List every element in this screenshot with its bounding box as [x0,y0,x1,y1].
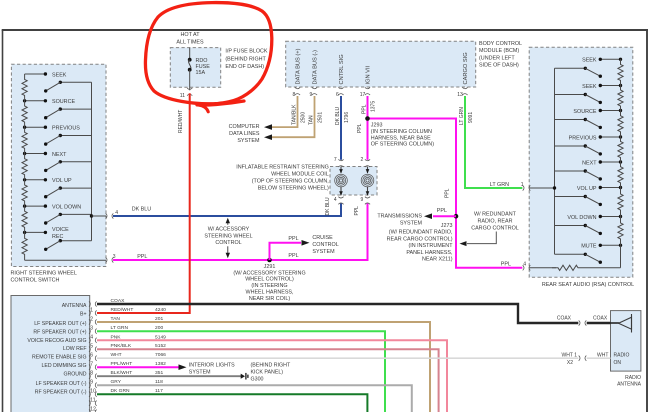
svg-text:CARGO SIG: CARGO SIG [463,52,469,84]
svg-text:STEERING WHEEL: STEERING WHEEL [204,233,252,239]
svg-text:WHT: WHT [597,352,608,358]
svg-text:4: 4 [90,335,93,341]
svg-text:NEAR SIR COIL): NEAR SIR COIL) [249,296,291,302]
svg-text:17: 17 [360,92,366,98]
svg-text:PPL: PPL [354,206,360,216]
svg-text:(IN INSTRUMENT: (IN INSTRUMENT [408,243,453,249]
svg-text:RADIO: RADIO [614,352,630,358]
svg-text:W/ REDUNDANT: W/ REDUNDANT [474,212,517,218]
svg-text:PPL: PPL [361,104,367,114]
svg-text:PPL: PPL [288,236,298,242]
svg-text:4240: 4240 [155,307,166,313]
svg-text:REC: REC [52,234,63,240]
svg-text:RF SPEAKER OUT (-): RF SPEAKER OUT (-) [35,390,87,396]
svg-text:HARNESS, NEAR BASE: HARNESS, NEAR BASE [371,135,431,141]
svg-text:SYSTEM: SYSTEM [400,221,423,227]
svg-text:NEXT: NEXT [52,152,67,158]
svg-text:3: 3 [90,326,93,332]
svg-text:PANEL HARNESS,: PANEL HARNESS, [406,250,453,256]
svg-text:BELOW STEERING WHEEL): BELOW STEERING WHEEL) [258,186,329,192]
svg-text:ALL TIMES: ALL TIMES [176,39,204,45]
svg-text:2501: 2501 [318,112,324,123]
svg-text:LT GRN: LT GRN [459,107,465,125]
svg-text:(TOP OF STEERING COLUMN,: (TOP OF STEERING COLUMN, [252,179,330,185]
svg-text:VOL UP: VOL UP [577,186,597,192]
svg-text:(W/ ACCESSORY STEERING: (W/ ACCESSORY STEERING [233,270,305,276]
svg-text:END OF DASH): END OF DASH) [225,64,264,70]
svg-text:SEEK: SEEK [582,84,597,90]
svg-text:9: 9 [90,380,93,386]
svg-text:PPL: PPL [437,208,447,214]
svg-text:CRUISE: CRUISE [312,235,333,241]
svg-text:ANTENNA: ANTENNA [617,382,642,388]
svg-text:9: 9 [361,197,364,203]
svg-text:COAX: COAX [557,316,572,322]
svg-text:RADIO, REAR: RADIO, REAR [477,219,512,225]
svg-text:11: 11 [180,93,185,99]
svg-text:(UNDER LEFT: (UNDER LEFT [479,55,515,61]
svg-text:LF SPEAKER OUT (-): LF SPEAKER OUT (-) [36,381,87,387]
svg-text:RIGHT STEERING WHEEL: RIGHT STEERING WHEEL [11,270,77,276]
svg-text:I/P FUSE BLOCK: I/P FUSE BLOCK [225,49,268,55]
svg-text:NEAR X211): NEAR X211) [422,257,453,263]
svg-text:CONTROL SWITCH: CONTROL SWITCH [11,277,60,283]
svg-text:MUTE: MUTE [581,244,597,250]
svg-text:SYSTEM: SYSTEM [312,249,335,255]
svg-text:PPL: PPL [501,261,511,267]
svg-text:2: 2 [90,316,93,322]
svg-text:TRANSMISSIONS: TRANSMISSIONS [377,214,422,220]
svg-text:1: 1 [521,182,524,188]
svg-text:DK BLU: DK BLU [325,197,331,215]
svg-text:VOL DOWN: VOL DOWN [52,204,81,210]
svg-text:SIDE OF DASH): SIDE OF DASH) [479,62,519,68]
svg-text:REAR CARGO CONTROL): REAR CARGO CONTROL) [387,236,453,242]
svg-text:15A: 15A [196,70,206,76]
svg-text:RADIO: RADIO [625,375,641,381]
svg-text:DK BLU: DK BLU [132,207,152,213]
svg-text:5: 5 [90,344,93,350]
svg-text:WHT: WHT [111,352,122,358]
svg-text:REMOTE ENABLE SIG: REMOTE ENABLE SIG [32,355,86,361]
svg-text:7: 7 [90,362,93,368]
svg-text:CNTRL SIG: CNTRL SIG [339,54,345,84]
svg-text:13: 13 [457,92,463,98]
svg-text:PPL: PPL [445,188,451,198]
svg-text:4: 4 [115,210,118,216]
svg-text:VOL UP: VOL UP [52,178,72,184]
svg-text:1375: 1375 [371,101,377,112]
svg-text:10: 10 [90,389,96,395]
svg-text:J293: J293 [371,123,383,129]
svg-text:REAR SEAT AUDIO (RSA) CONTROL: REAR SEAT AUDIO (RSA) CONTROL [542,282,634,288]
svg-text:W/ ACCESSORY: W/ ACCESSORY [208,227,250,233]
svg-text:INTERIOR LIGHTS: INTERIOR LIGHTS [189,363,235,369]
svg-text:8: 8 [90,371,93,377]
svg-text:SOURCE: SOURCE [52,99,75,105]
svg-text:SEEK: SEEK [582,58,597,64]
svg-text:LT GRN: LT GRN [490,182,509,188]
svg-text:(IN STEERING COLUMN: (IN STEERING COLUMN [371,129,432,135]
svg-text:HOT AT: HOT AT [181,32,201,38]
svg-text:(W/ REDUNDANT RADIO,: (W/ REDUNDANT RADIO, [389,230,453,236]
svg-text:ON: ON [614,360,622,366]
svg-text:2: 2 [361,157,364,163]
svg-text:COMPUTER: COMPUTER [229,124,260,130]
svg-text:7: 7 [334,157,337,163]
svg-text:WHEEL CONTROL): WHEEL CONTROL) [245,277,294,283]
svg-text:DK BLU: DK BLU [335,107,341,125]
svg-text:NEXT: NEXT [582,160,597,166]
svg-text:12: 12 [90,407,96,412]
svg-text:PPL: PPL [137,254,147,260]
svg-text:RED/WHT: RED/WHT [178,110,184,133]
svg-text:SYSTEM: SYSTEM [237,138,260,144]
svg-text:RF SPEAKER OUT (+): RF SPEAKER OUT (+) [33,330,86,336]
svg-text:9091: 9091 [468,112,474,123]
svg-text:DATA LINES: DATA LINES [229,131,260,137]
svg-text:B+: B+ [80,311,87,317]
svg-text:SYSTEM: SYSTEM [189,370,211,376]
svg-text:J273: J273 [441,223,453,229]
svg-text:WHEEL HARNESS,: WHEEL HARNESS, [245,290,294,296]
svg-text:LED DIMMING SIG: LED DIMMING SIG [42,363,87,369]
svg-text:LF SPEAKER OUT (+): LF SPEAKER OUT (+) [34,321,86,327]
svg-text:11: 11 [90,398,95,404]
svg-text:PREVIOUS: PREVIOUS [52,126,80,132]
svg-text:SEEK: SEEK [52,72,67,78]
svg-text:VOICE RECOG AUD SIG: VOICE RECOG AUD SIG [27,338,86,344]
svg-text:OF STEERING COLUMN): OF STEERING COLUMN) [371,142,434,148]
svg-text:IGN VII: IGN VII [366,65,372,84]
svg-text:J291: J291 [264,264,276,270]
svg-text:1796: 1796 [344,112,350,123]
svg-text:PPL: PPL [288,253,298,259]
svg-text:CONTROL: CONTROL [312,242,338,248]
svg-text:DATA BUS (-): DATA BUS (-) [313,50,319,85]
svg-text:TAN/BLK: TAN/BLK [291,104,297,125]
svg-text:G300: G300 [251,377,264,383]
svg-text:INFLATABLE RESTRAINT STEERING: INFLATABLE RESTRAINT STEERING [236,165,329,171]
svg-text:(BEHIND RIGHT: (BEHIND RIGHT [225,56,266,62]
svg-text:WHEEL MODULE COIL: WHEEL MODULE COIL [271,172,329,178]
svg-text:BODY CONTROL: BODY CONTROL [479,41,522,47]
svg-text:(BEHIND RIGHT: (BEHIND RIGHT [251,363,291,369]
svg-text:6: 6 [90,353,93,359]
svg-text:COAX: COAX [593,316,608,322]
svg-text:LOW REF: LOW REF [63,346,87,352]
svg-text:(IN STEERING: (IN STEERING [251,283,287,289]
svg-text:CONTROL: CONTROL [215,240,241,246]
svg-text:2500: 2500 [301,112,307,123]
svg-text:DATA BUS (+): DATA BUS (+) [296,48,302,84]
svg-text:WHT 1: WHT 1 [562,352,578,358]
svg-text:PREVIOUS: PREVIOUS [569,135,597,141]
svg-text:GROUND: GROUND [63,372,86,378]
svg-text:1: 1 [90,307,93,313]
svg-text:4: 4 [334,197,337,203]
svg-text:X2: X2 [567,360,573,366]
svg-text:VOICE: VOICE [52,227,69,233]
svg-text:SOURCE: SOURCE [573,109,596,115]
svg-text:CARGO CONTROL: CARGO CONTROL [471,226,519,232]
svg-text:KICK PANEL): KICK PANEL) [251,370,284,376]
svg-text:7066: 7066 [155,352,166,358]
svg-text:RED/WHT: RED/WHT [111,307,134,313]
svg-text:TAN: TAN [308,115,314,125]
svg-text:MODULE (BCM): MODULE (BCM) [479,48,519,54]
svg-text:VOL DOWN: VOL DOWN [567,215,596,221]
svg-text:ANTENNA: ANTENNA [62,303,87,309]
svg-text:3: 3 [113,254,116,260]
svg-text:PPL: PPL [357,123,363,133]
